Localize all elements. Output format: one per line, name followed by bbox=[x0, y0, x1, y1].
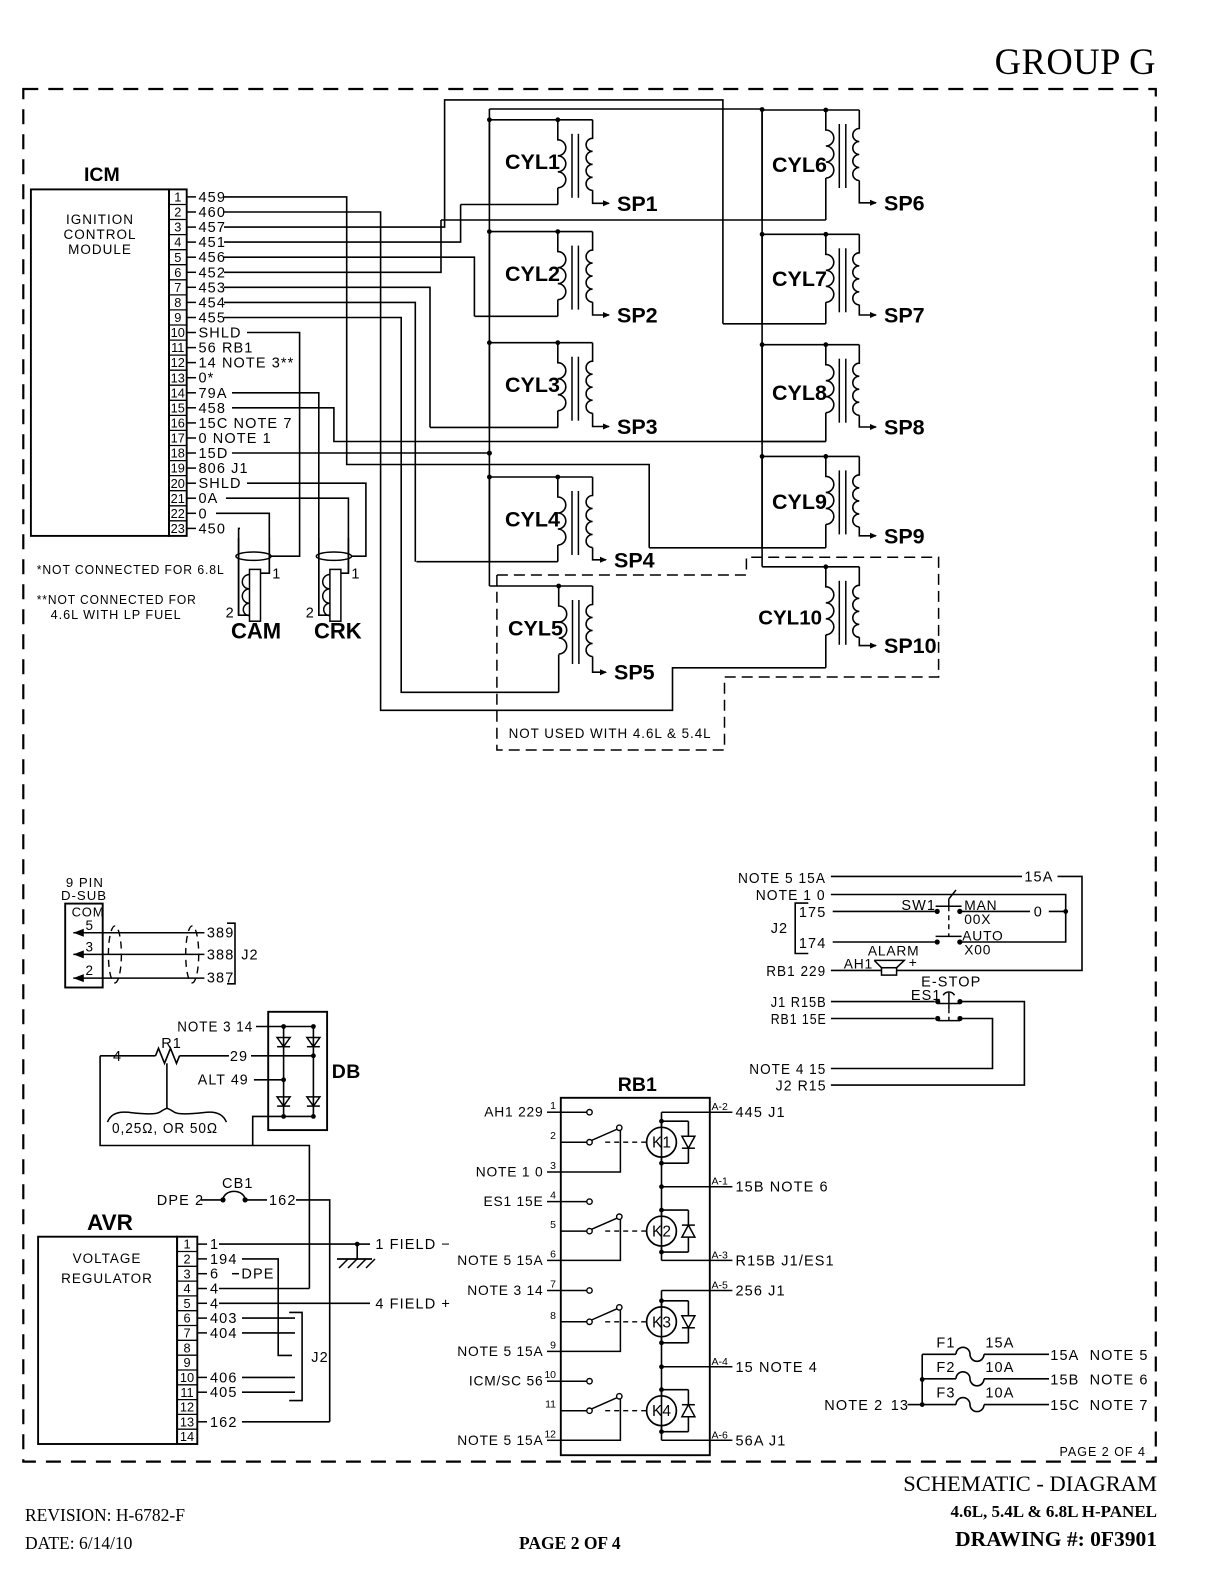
svg-text:15A: 15A bbox=[1024, 870, 1053, 886]
fuse feed vertical bbox=[920, 1354, 925, 1407]
svg-text:406: 406 bbox=[210, 1370, 238, 1386]
svg-text:CYL8: CYL8 bbox=[772, 381, 827, 405]
wire 459 ICM pin1 to CYL9 primary bbox=[224, 197, 649, 548]
wire RB1 15E bbox=[771, 1012, 941, 1028]
svg-text:460: 460 bbox=[199, 205, 227, 221]
svg-text:3: 3 bbox=[550, 1160, 556, 1172]
svg-text:4: 4 bbox=[210, 1296, 219, 1312]
svg-text:56 RB1: 56 RB1 bbox=[199, 341, 254, 357]
AVR voltage regulator box bbox=[38, 1237, 197, 1444]
svg-text:10: 10 bbox=[171, 325, 185, 340]
relay K3 bbox=[605, 1298, 695, 1345]
svg-text:F1: F1 bbox=[936, 1335, 955, 1351]
fuse F1 bbox=[922, 1335, 1148, 1364]
footer revision bbox=[25, 1505, 185, 1525]
svg-text:452: 452 bbox=[199, 265, 227, 281]
svg-text:445 J1: 445 J1 bbox=[736, 1105, 786, 1121]
svg-text:AUTO: AUTO bbox=[962, 929, 1003, 944]
circuit breaker CB1 bbox=[157, 1176, 297, 1209]
wire 452 ICM pin6 to CYL6 primary bbox=[224, 220, 441, 272]
svg-text:SW1: SW1 bbox=[901, 898, 936, 914]
junction 15D left bus bbox=[487, 451, 492, 456]
svg-text:7: 7 bbox=[183, 1326, 190, 1341]
wire 451 ICM pin4 to CYL1 primary bbox=[224, 205, 461, 243]
coil CYL6 top edge bbox=[762, 109, 859, 111]
wire 79A ICM pin14 to CRK pin2 bbox=[232, 393, 319, 615]
bracket J2 avr bbox=[289, 1312, 329, 1400]
DB bottom wire bbox=[253, 1114, 316, 1146]
svg-text:ALT 49: ALT 49 bbox=[198, 1072, 249, 1088]
ignition coil CYL7 bbox=[723, 232, 877, 324]
svg-text:DATE: 6/14/10: DATE: 6/14/10 bbox=[25, 1533, 133, 1553]
svg-text:J2: J2 bbox=[771, 921, 789, 937]
svg-text:6: 6 bbox=[210, 1267, 219, 1283]
dashed enclosure NOT USED bbox=[497, 557, 939, 750]
svg-text:7: 7 bbox=[174, 280, 181, 295]
RB1 output stubs A-1..A-6 bbox=[662, 1101, 835, 1449]
svg-text:NOTE 4 15: NOTE 4 15 bbox=[749, 1062, 826, 1078]
svg-text:12: 12 bbox=[544, 1428, 556, 1440]
svg-text:21: 21 bbox=[171, 491, 185, 506]
svg-text:15B NOTE 6: 15B NOTE 6 bbox=[736, 1180, 829, 1196]
svg-text:A-6: A-6 bbox=[712, 1429, 729, 1441]
wire 175 bbox=[799, 905, 940, 921]
estop title bbox=[911, 975, 982, 1005]
svg-text:SP8: SP8 bbox=[884, 416, 925, 440]
svg-text:19: 19 bbox=[171, 461, 185, 476]
svg-text:29: 29 bbox=[230, 1049, 248, 1065]
CAM sensor bbox=[226, 538, 282, 644]
svg-text:14 NOTE 3**: 14 NOTE 3** bbox=[199, 356, 295, 372]
svg-text:VOLTAGE: VOLTAGE bbox=[73, 1251, 142, 1266]
spark plug output SP6 bbox=[884, 191, 925, 215]
relay K2 bbox=[605, 1208, 695, 1255]
relay board RB1 box bbox=[561, 1098, 710, 1455]
svg-text:79A: 79A bbox=[199, 386, 228, 402]
footer panel bbox=[950, 1502, 1157, 1521]
wire 450 ICM pin23 to CAM pin2 bbox=[239, 528, 240, 615]
svg-text:458: 458 bbox=[199, 401, 227, 417]
svg-text:2: 2 bbox=[86, 963, 94, 978]
svg-text:**NOT CONNECTED FOR: **NOT CONNECTED FOR bbox=[37, 592, 197, 607]
svg-text:4.6L WITH LP FUEL: 4.6L WITH LP FUEL bbox=[51, 607, 182, 622]
svg-text:162: 162 bbox=[269, 1193, 297, 1209]
wire NOTE 3 14 to DB bbox=[177, 1020, 316, 1036]
svg-text:SP1: SP1 bbox=[617, 192, 658, 216]
svg-text:CYL3: CYL3 bbox=[505, 373, 560, 397]
svg-text:13: 13 bbox=[180, 1414, 194, 1429]
wire AVR pin7 404 bbox=[242, 1332, 295, 1334]
svg-text:NOTE 3 14: NOTE 3 14 bbox=[467, 1283, 543, 1298]
svg-text:12: 12 bbox=[171, 355, 185, 370]
svg-text:456: 456 bbox=[199, 250, 227, 266]
ICM pin labels bbox=[187, 190, 295, 538]
svg-text:RB1: RB1 bbox=[618, 1074, 657, 1096]
wire 162 to AVR pin13 bbox=[296, 1200, 330, 1422]
wire 456 ICM pin5 to CYL2 primary bbox=[224, 257, 474, 316]
svg-text:1: 1 bbox=[210, 1237, 219, 1253]
svg-text:00X: 00X bbox=[964, 912, 991, 927]
wire 457 ICM pin3 to CYL7 primary bbox=[224, 100, 723, 324]
wire AVR pin10 406 bbox=[242, 1376, 295, 1378]
svg-text:SCHEMATIC - DIAGRAM: SCHEMATIC - DIAGRAM bbox=[903, 1471, 1157, 1496]
svg-text:CYL4: CYL4 bbox=[505, 507, 560, 531]
spark plug output SP5 bbox=[614, 661, 655, 685]
ICM title bbox=[84, 164, 120, 186]
svg-text:A-1: A-1 bbox=[712, 1176, 729, 1188]
wire 455 ICM pin9 to CYL5 primary bbox=[224, 318, 559, 693]
svg-text:ICM: ICM bbox=[84, 164, 120, 186]
svg-text:388: 388 bbox=[207, 948, 235, 964]
svg-text:0 NOTE 1: 0 NOTE 1 bbox=[199, 431, 272, 447]
svg-text:A-5: A-5 bbox=[712, 1280, 729, 1292]
svg-text:3: 3 bbox=[174, 220, 181, 235]
svg-text:F2: F2 bbox=[936, 1360, 955, 1376]
svg-text:CONTROL: CONTROL bbox=[63, 227, 136, 242]
diode bridge DB bbox=[268, 1012, 327, 1130]
svg-text:DPE 2: DPE 2 bbox=[157, 1193, 204, 1209]
svg-text:COM: COM bbox=[72, 905, 105, 920]
svg-text:CAM: CAM bbox=[231, 619, 281, 644]
svg-text:AH1: AH1 bbox=[844, 957, 873, 972]
svg-text:SP2: SP2 bbox=[617, 304, 658, 328]
svg-text:REVISION: H-6782-F: REVISION: H-6782-F bbox=[25, 1505, 185, 1525]
svg-text:R1: R1 bbox=[161, 1036, 182, 1052]
svg-text:4 FIELD +: 4 FIELD + bbox=[375, 1296, 451, 1312]
svg-text:194: 194 bbox=[210, 1252, 238, 1268]
svg-text:56A J1: 56A J1 bbox=[736, 1433, 787, 1449]
wire NOTE 5 15A to alarm bbox=[738, 870, 1082, 971]
RB1 left pin labels bbox=[457, 1100, 561, 1448]
svg-text:NOTE 6: NOTE 6 bbox=[1090, 1372, 1149, 1388]
svg-text:13: 13 bbox=[171, 370, 185, 385]
ICM box text bbox=[63, 212, 136, 257]
svg-text:9: 9 bbox=[550, 1339, 556, 1351]
RB1 trunk 2 bbox=[659, 1291, 664, 1441]
AVR pin numbers bbox=[180, 1237, 194, 1445]
bus left column vertical bbox=[488, 109, 490, 586]
svg-text:SHLD: SHLD bbox=[199, 476, 242, 492]
svg-text:15 NOTE 4: 15 NOTE 4 bbox=[736, 1360, 818, 1376]
wire 174 bbox=[799, 936, 940, 952]
svg-text:SHLD: SHLD bbox=[199, 326, 242, 342]
svg-text:NOTE 5 15A: NOTE 5 15A bbox=[738, 871, 826, 887]
svg-text:NOTE 5 15A: NOTE 5 15A bbox=[457, 1433, 543, 1448]
svg-text:0A: 0A bbox=[199, 491, 219, 507]
CRK sensor bbox=[306, 538, 362, 644]
note star bbox=[37, 562, 225, 577]
svg-text:CYL7: CYL7 bbox=[772, 267, 827, 291]
AVR box text bbox=[61, 1251, 153, 1286]
svg-text:6: 6 bbox=[183, 1311, 190, 1326]
svg-text:454: 454 bbox=[199, 295, 227, 311]
ignition coil CYL8 bbox=[762, 342, 877, 441]
svg-text:J1 R15B: J1 R15B bbox=[771, 995, 827, 1011]
svg-text:NOTE 5: NOTE 5 bbox=[1090, 1348, 1149, 1364]
coil CYL10 primary extension bbox=[825, 635, 827, 668]
ignition coil CYL1 bbox=[461, 117, 610, 206]
svg-text:NOTE 5 15A: NOTE 5 15A bbox=[457, 1253, 543, 1268]
estop ES1 contacts bbox=[938, 992, 963, 1021]
svg-text:404: 404 bbox=[210, 1326, 238, 1342]
svg-text:REGULATOR: REGULATOR bbox=[61, 1271, 153, 1286]
wire 453 ICM pin7 to CYL3 primary bbox=[224, 287, 430, 427]
svg-text:SP3: SP3 bbox=[617, 415, 658, 439]
svg-text:5: 5 bbox=[174, 250, 181, 265]
svg-text:3: 3 bbox=[86, 939, 94, 954]
wire 0 ICM pin22 to CAM pin1 bbox=[216, 513, 269, 573]
wire 458 ICM pin15 to CYL8 primary bbox=[232, 408, 826, 442]
svg-text:457: 457 bbox=[199, 220, 227, 236]
fuse F3 bbox=[922, 1386, 1148, 1415]
wire 454 ICM pin8 to CYL4 primary bbox=[224, 302, 415, 561]
svg-text:+: + bbox=[909, 955, 917, 970]
svg-text:174: 174 bbox=[799, 936, 827, 952]
svg-text:NOTE 7: NOTE 7 bbox=[1090, 1398, 1149, 1414]
svg-text:2: 2 bbox=[550, 1130, 556, 1142]
RB1 trunk 1 bbox=[659, 1112, 664, 1260]
svg-text:405: 405 bbox=[210, 1385, 238, 1401]
svg-text:2: 2 bbox=[306, 606, 314, 622]
svg-text:2: 2 bbox=[174, 205, 181, 220]
svg-text:4: 4 bbox=[174, 235, 181, 250]
svg-text:DRAWING #: 0F3901: DRAWING #: 0F3901 bbox=[955, 1527, 1157, 1551]
ignition coil CYL5 bbox=[489, 584, 607, 676]
spark plug output SP10 bbox=[884, 634, 937, 658]
svg-text:IGNITION: IGNITION bbox=[66, 212, 134, 227]
svg-text:8: 8 bbox=[550, 1310, 556, 1322]
svg-text:MAN: MAN bbox=[964, 898, 997, 913]
spark plug output SP9 bbox=[884, 524, 925, 548]
svg-text:J2: J2 bbox=[241, 948, 259, 964]
svg-text:RB1 15E: RB1 15E bbox=[771, 1012, 827, 1028]
RB1 contacts bbox=[561, 1110, 622, 1441]
svg-text:256 J1: 256 J1 bbox=[736, 1284, 786, 1300]
svg-text:CYL10: CYL10 bbox=[758, 606, 822, 629]
svg-text:806 J1: 806 J1 bbox=[199, 461, 249, 477]
svg-text:SP5: SP5 bbox=[614, 661, 655, 685]
wire estop pole2 to NOTE 4 15 bbox=[749, 1019, 992, 1079]
spark plug output SP3 bbox=[617, 415, 658, 439]
svg-text:NOT USED WITH 4.6L & 5.4L: NOT USED WITH 4.6L & 5.4L bbox=[509, 726, 712, 741]
svg-text:1: 1 bbox=[550, 1100, 556, 1112]
wire J1 R15B bbox=[771, 995, 941, 1011]
svg-text:6: 6 bbox=[550, 1248, 556, 1260]
svg-text:15C NOTE 7: 15C NOTE 7 bbox=[199, 416, 293, 432]
title GROUP G bbox=[995, 41, 1156, 82]
svg-text:8: 8 bbox=[183, 1340, 190, 1355]
svg-text:NOTE 2: NOTE 2 bbox=[824, 1398, 883, 1414]
wire AVR pin2 194 to J2 bbox=[242, 1259, 292, 1356]
svg-text:NOTE 1 0: NOTE 1 0 bbox=[756, 888, 826, 904]
bus right column vertical bbox=[761, 110, 763, 567]
wire estop pole1 to J2 R15 bbox=[776, 1002, 1025, 1095]
ignition coil CYL3 bbox=[430, 340, 610, 429]
wire SHLD ICM pin20 to CRK shield bbox=[247, 483, 366, 556]
alarm horn AH1 bbox=[844, 944, 920, 976]
bracket J2 sw1 bbox=[771, 903, 809, 953]
svg-text:A-4: A-4 bbox=[712, 1356, 729, 1368]
svg-text:ICM/SC 56: ICM/SC 56 bbox=[469, 1374, 544, 1389]
page label small bbox=[1060, 1445, 1147, 1459]
svg-text:NOTE 3 14: NOTE 3 14 bbox=[177, 1020, 253, 1036]
svg-text:CYL1: CYL1 bbox=[505, 150, 560, 174]
svg-text:SP10: SP10 bbox=[884, 634, 937, 658]
ICM ignition control module box bbox=[31, 189, 187, 536]
wire RB1 229 alarm bbox=[766, 964, 881, 980]
svg-text:3: 3 bbox=[183, 1266, 190, 1281]
COM label bbox=[72, 905, 105, 920]
spark plug output SP4 bbox=[614, 548, 655, 572]
svg-text:10: 10 bbox=[544, 1369, 556, 1381]
spark plug output SP1 bbox=[617, 192, 658, 216]
coil CYL5 primary extension bbox=[558, 655, 560, 693]
DB label bbox=[332, 1061, 361, 1083]
bus right dots bbox=[760, 107, 765, 459]
page dashed border bbox=[23, 89, 1156, 1462]
DPE label pin3 bbox=[232, 1267, 275, 1283]
wire AVR pin5 field plus bbox=[219, 1296, 451, 1312]
svg-text:453: 453 bbox=[199, 280, 227, 296]
svg-text:5: 5 bbox=[183, 1296, 190, 1311]
wire AVR pin13 162 bbox=[242, 1421, 330, 1423]
fuse F2 bbox=[922, 1360, 1148, 1389]
svg-text:CYL6: CYL6 bbox=[772, 153, 827, 177]
value text bbox=[112, 1121, 218, 1137]
svg-text:10A: 10A bbox=[985, 1386, 1014, 1402]
ignition coil CYL2 bbox=[474, 229, 610, 318]
svg-text:NOTE 5 15A: NOTE 5 15A bbox=[457, 1344, 543, 1359]
AVR pin labels bbox=[197, 1237, 237, 1431]
svg-text:8: 8 bbox=[174, 295, 181, 310]
value brace bbox=[108, 1108, 227, 1122]
svg-text:15B: 15B bbox=[1050, 1372, 1079, 1388]
labels 389 388 387 bbox=[207, 926, 235, 987]
field negative wire bbox=[100, 1056, 309, 1289]
svg-text:455: 455 bbox=[199, 311, 227, 327]
svg-text:0*: 0* bbox=[199, 371, 215, 387]
spark plug output SP2 bbox=[617, 304, 658, 328]
wire NOTE 2 13 bbox=[824, 1398, 922, 1414]
RB1 title bbox=[618, 1074, 657, 1096]
svg-text:14: 14 bbox=[180, 1429, 194, 1444]
svg-text:5: 5 bbox=[86, 918, 94, 933]
svg-text:175: 175 bbox=[799, 905, 827, 921]
wire 0A ICM pin21 to CRK pin1 bbox=[226, 498, 348, 573]
relay K4 bbox=[605, 1387, 695, 1434]
svg-text:0: 0 bbox=[199, 506, 208, 522]
svg-text:*NOT CONNECTED FOR 6.8L: *NOT CONNECTED FOR 6.8L bbox=[37, 562, 225, 577]
svg-text:4.6L, 5.4L & 6.8L H-PANEL: 4.6L, 5.4L & 6.8L H-PANEL bbox=[950, 1502, 1157, 1521]
svg-text:AH1 229: AH1 229 bbox=[484, 1105, 543, 1120]
svg-text:162: 162 bbox=[210, 1415, 238, 1431]
wire 15D ICM pin18 to coil buses bbox=[232, 452, 489, 454]
svg-text:A-3: A-3 bbox=[712, 1249, 729, 1261]
svg-text:10: 10 bbox=[180, 1370, 194, 1385]
svg-text:ES1 15E: ES1 15E bbox=[483, 1194, 543, 1209]
svg-text:1 FIELD −: 1 FIELD − bbox=[375, 1237, 451, 1253]
footer date bbox=[25, 1533, 133, 1553]
svg-text:7: 7 bbox=[550, 1279, 556, 1291]
not used text bbox=[509, 726, 712, 741]
svg-text:GROUP G: GROUP G bbox=[995, 41, 1156, 82]
ICM pin numbers 1-23 bbox=[171, 190, 185, 537]
svg-text:11: 11 bbox=[545, 1399, 556, 1411]
svg-text:CRK: CRK bbox=[314, 619, 362, 644]
ignition coil CYL9 bbox=[649, 454, 877, 548]
note doublestar bbox=[37, 592, 197, 622]
wire 29 to DB bbox=[230, 1049, 316, 1065]
svg-text:CYL2: CYL2 bbox=[505, 262, 560, 286]
svg-text:14: 14 bbox=[171, 385, 185, 400]
svg-text:0: 0 bbox=[1034, 905, 1043, 921]
svg-text:SP7: SP7 bbox=[884, 304, 925, 328]
D-SUB 9 pin connector COM bbox=[65, 904, 204, 988]
ground chassis bbox=[337, 1244, 375, 1268]
wire AVR pin1 field minus bbox=[219, 1237, 451, 1253]
svg-text:4: 4 bbox=[113, 1049, 121, 1065]
wire NOTE 1 0 bbox=[756, 888, 1068, 942]
svg-text:13: 13 bbox=[891, 1398, 909, 1414]
svg-text:R15B J1/ES1: R15B J1/ES1 bbox=[736, 1253, 835, 1269]
svg-text:15D: 15D bbox=[199, 446, 229, 462]
svg-text:J2 R15: J2 R15 bbox=[776, 1079, 827, 1095]
wire ALT 49 to DB bbox=[198, 1072, 286, 1088]
wire AVR pin4 to field circuit bbox=[219, 1288, 309, 1290]
wire AVR pin11 405 bbox=[242, 1391, 295, 1393]
svg-text:DPE: DPE bbox=[241, 1267, 274, 1283]
svg-text:9: 9 bbox=[174, 310, 181, 325]
svg-text:10A: 10A bbox=[985, 1360, 1014, 1376]
svg-text:450: 450 bbox=[199, 521, 227, 537]
svg-text:AVR: AVR bbox=[87, 1210, 133, 1235]
svg-text:DB: DB bbox=[332, 1061, 361, 1083]
svg-text:16: 16 bbox=[171, 416, 185, 431]
svg-text:11: 11 bbox=[171, 340, 184, 355]
svg-text:4: 4 bbox=[550, 1190, 556, 1202]
wire AVR pin6 403 bbox=[242, 1317, 295, 1319]
svg-text:J2: J2 bbox=[311, 1350, 329, 1366]
svg-text:2: 2 bbox=[183, 1252, 190, 1267]
svg-text:D-SUB: D-SUB bbox=[61, 888, 107, 903]
labels MAN AUTO bbox=[962, 898, 1003, 957]
svg-text:4: 4 bbox=[210, 1282, 219, 1298]
svg-text:9: 9 bbox=[183, 1355, 190, 1370]
svg-text:SP4: SP4 bbox=[614, 548, 655, 572]
svg-text:1: 1 bbox=[272, 567, 280, 583]
ignition coil CYL10 bbox=[758, 564, 877, 648]
svg-text:4: 4 bbox=[183, 1281, 190, 1296]
svg-text:NOTE 1 0: NOTE 1 0 bbox=[476, 1165, 544, 1180]
svg-text:389: 389 bbox=[207, 926, 235, 942]
selector switch SW1 bbox=[901, 890, 1065, 945]
svg-text:CYL9: CYL9 bbox=[772, 490, 827, 514]
svg-text:451: 451 bbox=[199, 235, 227, 251]
wire 460 ICM pin2 to CYL10 primary bbox=[224, 212, 826, 710]
svg-text:1: 1 bbox=[174, 190, 181, 205]
footer schematic-diagram bbox=[903, 1471, 1157, 1496]
svg-text:12: 12 bbox=[180, 1400, 194, 1415]
svg-text:RB1 229: RB1 229 bbox=[766, 964, 826, 980]
R1 label bbox=[161, 1036, 182, 1052]
svg-text:403: 403 bbox=[210, 1311, 238, 1327]
svg-text:CYL5: CYL5 bbox=[508, 616, 563, 640]
R1 center tap bbox=[166, 1063, 168, 1108]
svg-text:20: 20 bbox=[171, 476, 185, 491]
svg-text:1: 1 bbox=[351, 567, 359, 583]
svg-text:A-2: A-2 bbox=[712, 1101, 729, 1113]
svg-text:0,25Ω, OR 50Ω: 0,25Ω, OR 50Ω bbox=[112, 1121, 218, 1137]
